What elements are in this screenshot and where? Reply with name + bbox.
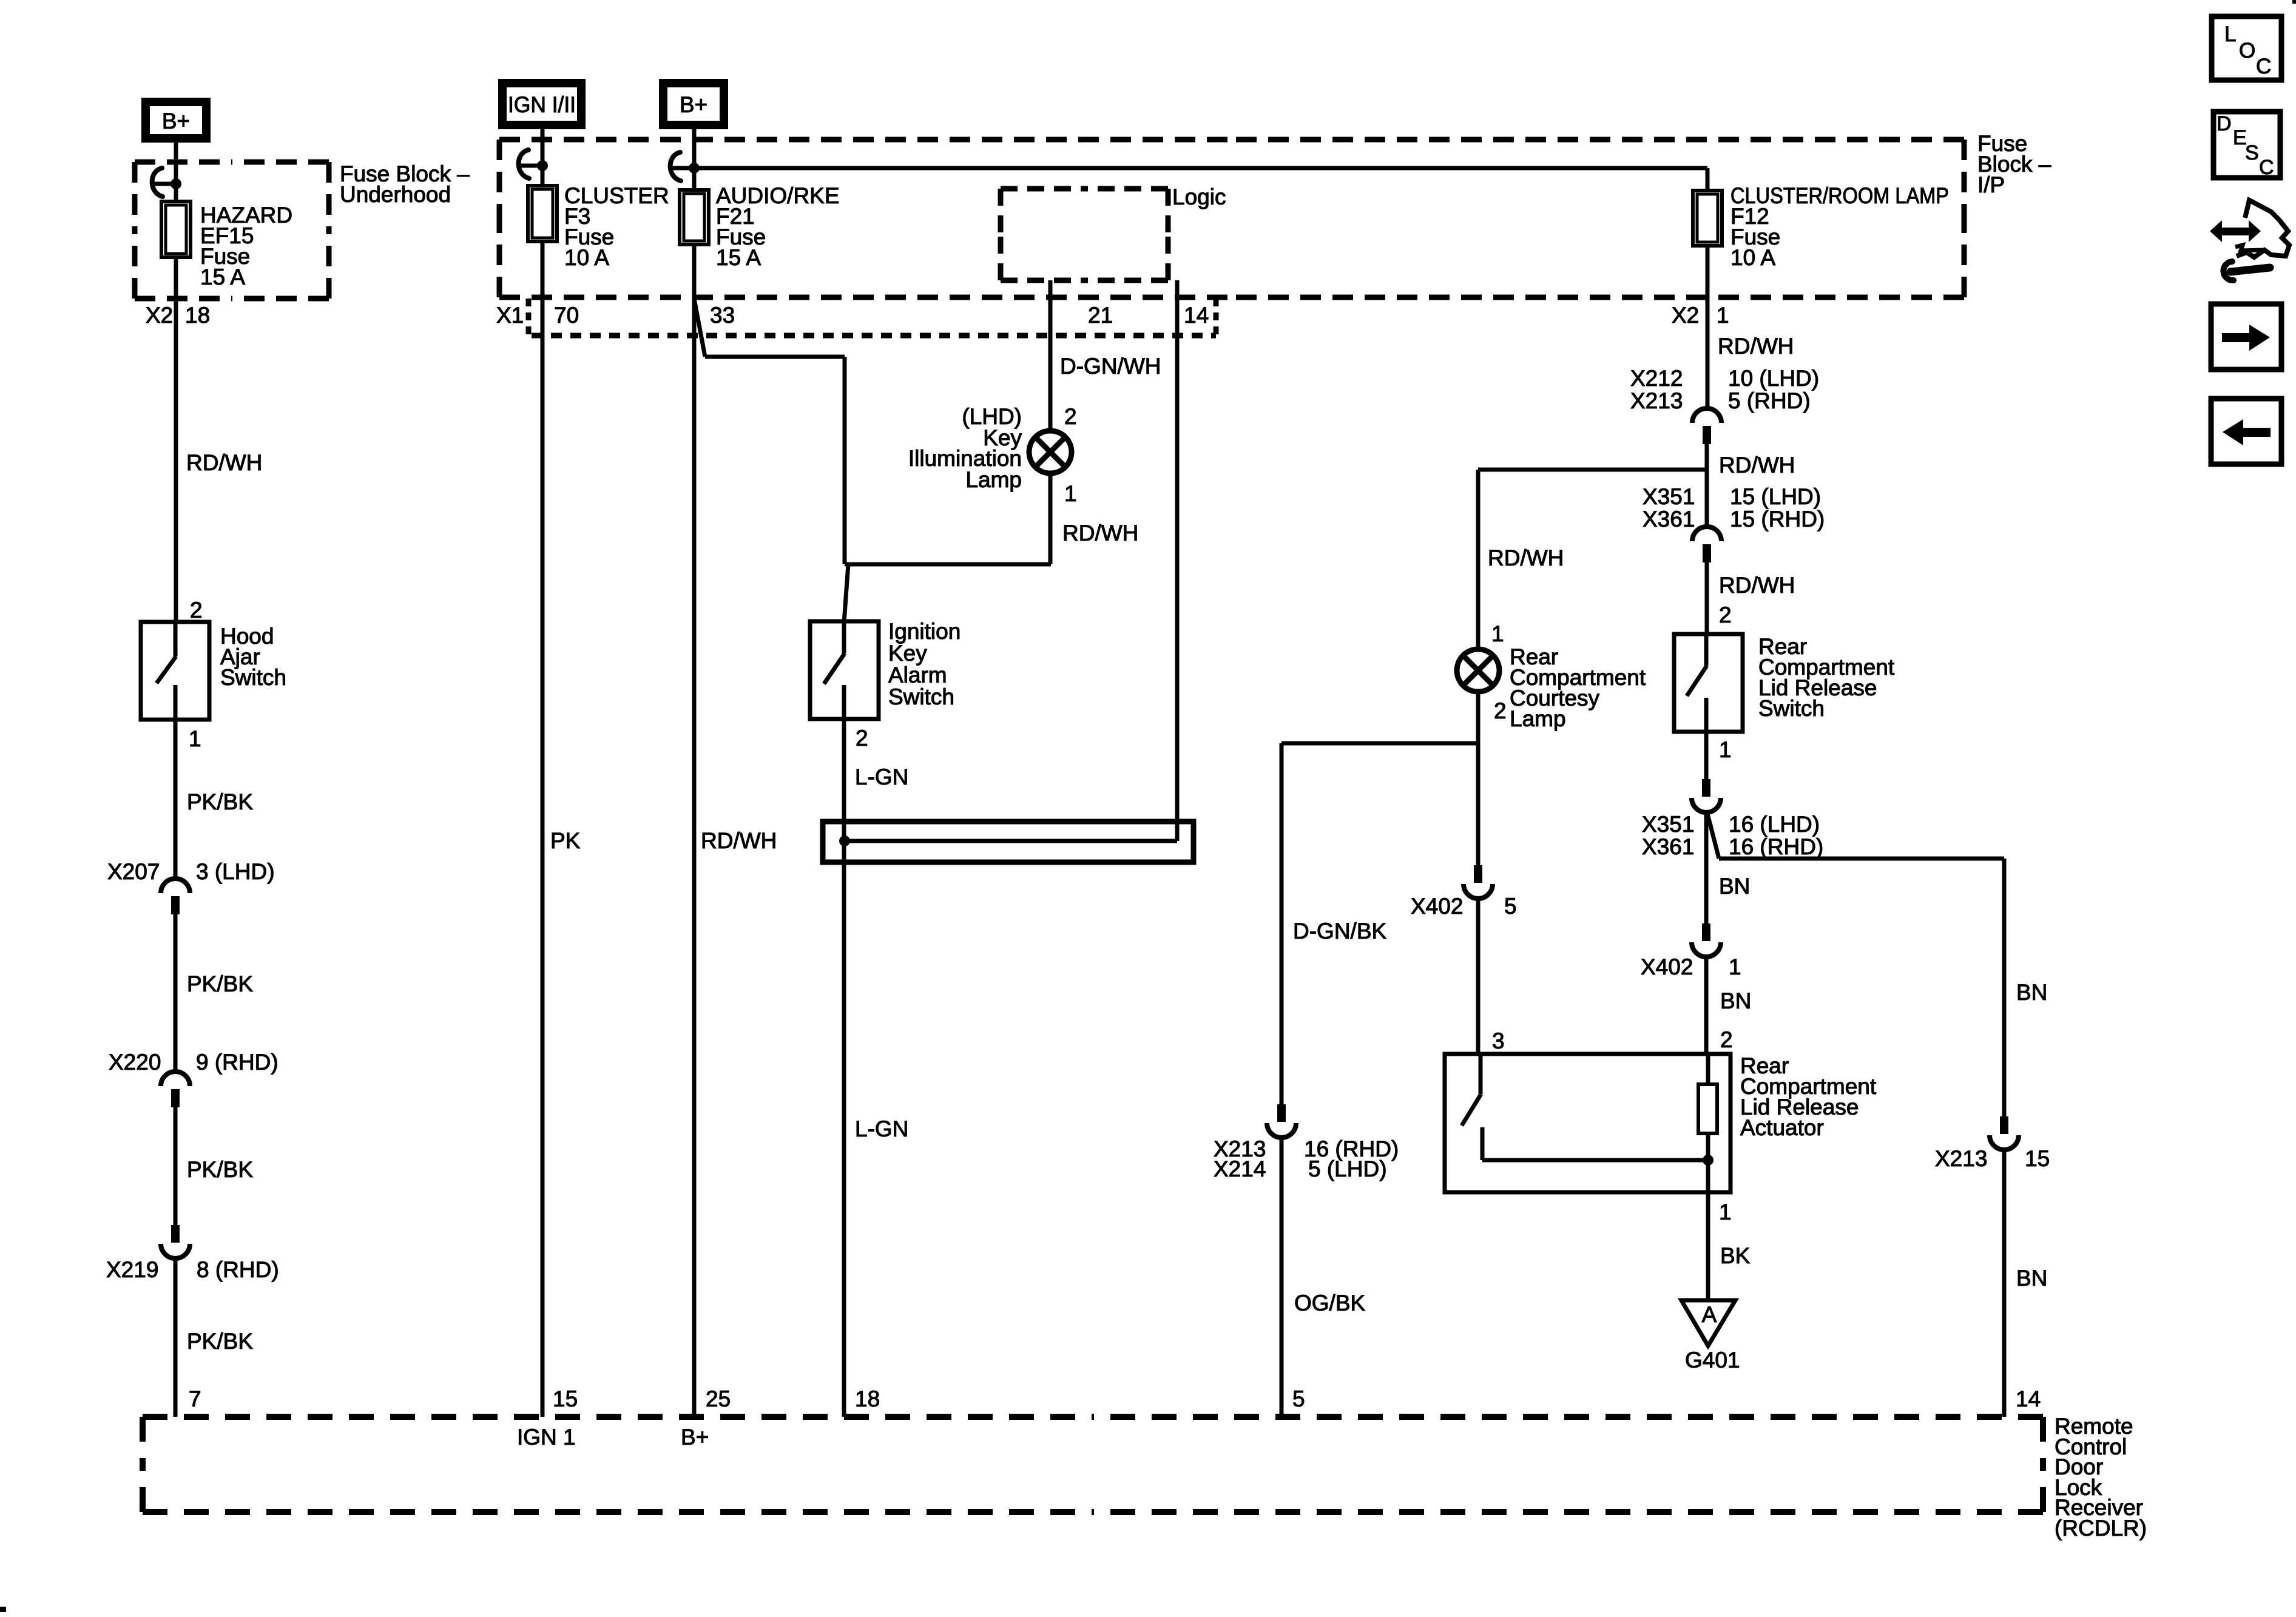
- svg-text:X207: X207: [107, 859, 160, 884]
- svg-text:I/P: I/P: [1977, 172, 2005, 197]
- svg-text:D: D: [2217, 112, 2232, 135]
- svg-text:X402: X402: [1641, 954, 1693, 979]
- svg-text:14: 14: [2016, 1386, 2041, 1411]
- svg-text:B+: B+: [680, 92, 707, 117]
- svg-text:16 (LHD): 16 (LHD): [1729, 812, 1820, 837]
- svg-text:3 (LHD): 3 (LHD): [196, 859, 275, 884]
- svg-text:2: 2: [1494, 698, 1507, 723]
- svg-text:10 A: 10 A: [564, 245, 609, 270]
- svg-text:OG/BK: OG/BK: [1294, 1291, 1366, 1315]
- svg-text:16 (RHD): 16 (RHD): [1729, 834, 1823, 859]
- svg-text:1: 1: [1491, 621, 1504, 646]
- svg-text:70: 70: [554, 303, 579, 328]
- svg-text:X2: X2: [1672, 303, 1699, 328]
- svg-text:RD/WH: RD/WH: [1718, 334, 1794, 359]
- svg-text:25: 25: [706, 1386, 731, 1411]
- svg-text:PK/BK: PK/BK: [187, 1157, 253, 1182]
- svg-text:C: C: [2256, 55, 2271, 78]
- svg-text:1: 1: [1729, 954, 1741, 979]
- svg-text:X213: X213: [1935, 1146, 1987, 1171]
- svg-text:5 (LHD): 5 (LHD): [1308, 1156, 1387, 1181]
- svg-text:L-GN: L-GN: [855, 765, 908, 789]
- svg-text:C: C: [2259, 156, 2274, 179]
- svg-text:BK: BK: [1720, 1243, 1751, 1268]
- svg-text:RD/WH: RD/WH: [1719, 453, 1795, 478]
- svg-text:1: 1: [1064, 481, 1077, 506]
- svg-text:15: 15: [2025, 1146, 2050, 1171]
- svg-text:2: 2: [190, 598, 203, 623]
- svg-text:21: 21: [1088, 303, 1113, 328]
- svg-text:7: 7: [189, 1386, 201, 1411]
- svg-text:1: 1: [1717, 303, 1729, 328]
- svg-text:1: 1: [1719, 1200, 1732, 1224]
- svg-text:X213: X213: [1630, 388, 1683, 413]
- svg-text:(RCDLR): (RCDLR): [2055, 1516, 2147, 1541]
- svg-text:S: S: [2245, 141, 2259, 164]
- svg-text:2: 2: [1064, 404, 1077, 429]
- svg-text:15 A: 15 A: [200, 265, 245, 289]
- svg-text:X402: X402: [1411, 894, 1463, 919]
- svg-text:15: 15: [553, 1386, 578, 1411]
- svg-text:15 (RHD): 15 (RHD): [1730, 507, 1825, 532]
- svg-text:RD/WH: RD/WH: [1062, 521, 1138, 545]
- svg-text:B+: B+: [681, 1425, 709, 1450]
- svg-text:RD/WH: RD/WH: [701, 828, 777, 853]
- svg-text:RD/WH: RD/WH: [186, 450, 262, 475]
- svg-text:L: L: [2224, 22, 2236, 46]
- svg-text:A: A: [1702, 1302, 1717, 1327]
- svg-text:Underhood: Underhood: [340, 182, 451, 207]
- svg-text:5: 5: [1504, 894, 1517, 919]
- svg-text:Ignition: Ignition: [888, 619, 961, 644]
- svg-text:1: 1: [1719, 737, 1732, 762]
- svg-text:BN: BN: [1720, 988, 1751, 1013]
- svg-text:Key: Key: [888, 641, 927, 666]
- svg-text:2: 2: [1720, 1027, 1733, 1052]
- svg-text:14: 14: [1184, 303, 1209, 328]
- svg-text:X2: X2: [146, 303, 173, 328]
- svg-text:1: 1: [189, 726, 201, 751]
- svg-text:RD/WH: RD/WH: [1719, 573, 1795, 598]
- svg-text:8 (RHD): 8 (RHD): [197, 1257, 279, 1282]
- svg-text:18: 18: [185, 303, 210, 328]
- svg-text:D-GN/BK: D-GN/BK: [1293, 919, 1387, 944]
- svg-text:X351: X351: [1642, 812, 1694, 837]
- svg-text:IGN 1: IGN 1: [517, 1425, 576, 1450]
- svg-text:Actuator: Actuator: [1740, 1115, 1824, 1140]
- svg-text:PK/BK: PK/BK: [187, 971, 253, 996]
- svg-text:33: 33: [710, 303, 735, 328]
- svg-text:BN: BN: [1719, 874, 1750, 899]
- svg-text:RD/WH: RD/WH: [1488, 545, 1564, 570]
- svg-text:BN: BN: [2016, 980, 2047, 1005]
- svg-text:15 (LHD): 15 (LHD): [1730, 484, 1821, 509]
- svg-text:D-GN/WH: D-GN/WH: [1060, 354, 1161, 379]
- svg-text:10 A: 10 A: [1730, 245, 1775, 270]
- svg-text:PK/BK: PK/BK: [187, 1329, 253, 1354]
- svg-text:B+: B+: [162, 109, 190, 133]
- svg-text:BN: BN: [2016, 1266, 2047, 1291]
- svg-text:Logic: Logic: [1172, 184, 1226, 209]
- svg-text:10 (LHD): 10 (LHD): [1728, 366, 1819, 391]
- svg-text:X214: X214: [1214, 1156, 1266, 1181]
- svg-text:Switch: Switch: [1758, 696, 1825, 721]
- svg-text:PK/BK: PK/BK: [187, 789, 253, 814]
- svg-text:Lamp: Lamp: [1510, 706, 1566, 731]
- svg-text:X361: X361: [1642, 834, 1694, 859]
- svg-text:9 (RHD): 9 (RHD): [196, 1050, 279, 1075]
- svg-text:3: 3: [1492, 1028, 1505, 1053]
- svg-text:2: 2: [856, 726, 868, 751]
- svg-text:X219: X219: [106, 1257, 158, 1282]
- svg-text:5 (RHD): 5 (RHD): [1728, 388, 1811, 413]
- svg-text:G401: G401: [1685, 1348, 1740, 1372]
- svg-text:X351: X351: [1643, 484, 1695, 509]
- svg-text:Switch: Switch: [888, 684, 954, 709]
- svg-text:PK: PK: [550, 828, 581, 853]
- svg-text:2: 2: [1719, 603, 1732, 627]
- svg-text:IGN I/II: IGN I/II: [508, 92, 576, 117]
- svg-text:15 A: 15 A: [716, 245, 761, 270]
- svg-text:X212: X212: [1630, 366, 1683, 391]
- svg-text:Alarm: Alarm: [888, 663, 947, 687]
- svg-text:Switch: Switch: [220, 665, 286, 690]
- svg-text:X361: X361: [1643, 507, 1695, 532]
- svg-text:O: O: [2239, 39, 2255, 62]
- svg-text:18: 18: [855, 1386, 880, 1411]
- svg-text:5: 5: [1292, 1386, 1305, 1411]
- svg-text:X1: X1: [496, 303, 524, 328]
- svg-text:L-GN: L-GN: [855, 1116, 908, 1141]
- svg-text:Lamp: Lamp: [965, 467, 1022, 492]
- svg-text:X220: X220: [109, 1050, 161, 1075]
